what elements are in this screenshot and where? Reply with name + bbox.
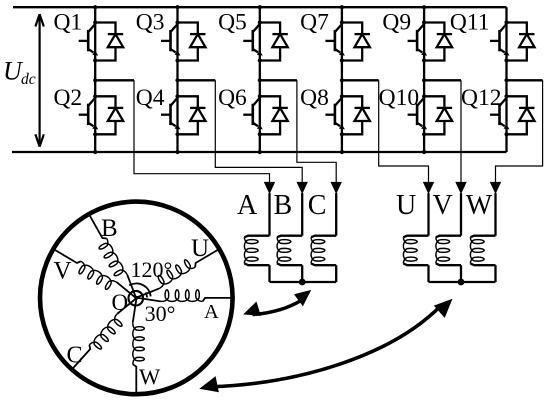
IGBT Q8 with freewheel diode [325, 96, 370, 134]
junction midpoint leg 2 [175, 78, 179, 82]
svg-text:B: B [274, 190, 293, 221]
svg-text:Q12: Q12 [461, 85, 501, 111]
phase input arrow U [423, 182, 434, 194]
svg-text:B: B [101, 215, 118, 242]
winding coil W [470, 236, 495, 238]
svg-text:Q3: Q3 [136, 10, 165, 36]
wire W to star [494, 265, 496, 282]
junction leg 3 to DC+ rail [258, 5, 262, 9]
svg-text:A: A [204, 301, 219, 323]
junction leg 2 to DC- rail [175, 150, 179, 154]
svg-text:Q11: Q11 [450, 10, 490, 36]
svg-text:120°: 120° [131, 257, 173, 282]
wire phase tap leg 6 [507, 79, 543, 81]
wire U to star [427, 265, 429, 282]
winding spoke A [138, 290, 233, 302]
IGBT Q5 with freewheel diode [243, 23, 287, 61]
junction leg 2 to DC+ rail [175, 5, 179, 9]
IGBT Q1 with freewheel diode [79, 23, 124, 61]
wire phase W [494, 193, 496, 236]
IGBT Q4 with freewheel diode [161, 96, 206, 134]
winding coil A [244, 236, 269, 238]
center ring O [129, 291, 144, 306]
wire star bus ABC [270, 281, 337, 283]
junction leg 1 to DC+ rail [93, 5, 97, 9]
svg-text:W: W [139, 364, 161, 389]
wire B to star [301, 265, 303, 282]
wire phase V [460, 193, 462, 236]
svg-text:30°: 30° [145, 301, 176, 326]
winding spoke W [133, 299, 145, 394]
junction midpoint leg 1 [93, 78, 97, 82]
svg-text:Q7: Q7 [300, 10, 329, 36]
junction midpoint leg 3 [258, 78, 262, 82]
angle arc 120 deg [129, 283, 151, 296]
svg-text:U: U [191, 235, 209, 262]
junction leg 4 to DC+ rail [340, 5, 344, 9]
phase input arrow W [490, 182, 501, 194]
svg-text:Q9: Q9 [382, 10, 411, 36]
svg-text:Q10: Q10 [379, 85, 419, 111]
svg-text:Q2: Q2 [53, 85, 82, 111]
IGBT Q11 with freewheel diode [490, 23, 535, 61]
svg-text:O: O [112, 290, 129, 315]
winding coil B [277, 236, 302, 238]
wire feed A [134, 80, 270, 184]
svg-text:W: W [466, 190, 493, 221]
wire feed B [215, 80, 302, 184]
IGBT Q2 with freewheel diode [79, 96, 124, 134]
junction midpoint leg 4 [340, 78, 344, 82]
wire phase U [427, 193, 429, 236]
wire C to star [335, 265, 337, 282]
IGBT Q12 with freewheel diode [490, 96, 535, 134]
IGBT Q3 with freewheel diode [161, 23, 206, 61]
wire phase tap leg 4 [342, 79, 379, 81]
junction midpoint leg 6 [504, 78, 508, 82]
junction leg 4 to DC- rail [340, 150, 344, 154]
svg-text:dc: dc [21, 71, 36, 88]
svg-text:Q6: Q6 [218, 85, 247, 111]
junction midpoint leg 5 [422, 78, 426, 82]
junction leg 1 to DC- rail [93, 150, 97, 154]
angle arc 30 deg [146, 292, 148, 297]
star point n1 [299, 279, 306, 286]
phase input arrow C [331, 182, 342, 194]
wire DC+ top rail [13, 6, 507, 8]
svg-text:C: C [308, 190, 327, 221]
svg-text:V: V [54, 258, 72, 285]
wire inverter leg 6 [505, 7, 507, 152]
svg-text:Q1: Q1 [53, 10, 82, 36]
winding spoke U [134, 242, 222, 300]
wire phase tap leg 2 [178, 79, 216, 81]
wire phase B [301, 193, 303, 236]
wire feed U [379, 80, 429, 184]
IGBT Q10 with freewheel diode [408, 96, 453, 134]
phasor circle [40, 202, 233, 395]
wire feed C [297, 80, 336, 184]
winding spoke B [82, 212, 139, 300]
svg-text:U: U [396, 190, 416, 221]
wire feed V [460, 80, 462, 184]
phase input arrow A [264, 182, 275, 194]
svg-text:Q8: Q8 [300, 85, 329, 111]
svg-text:V: V [433, 190, 453, 221]
Udc bus voltage double arrow [35, 14, 43, 146]
wire phase A [268, 193, 270, 236]
wire inverter leg 2 [176, 7, 178, 152]
winding coil U [403, 236, 428, 238]
IGBT Q7 with freewheel diode [325, 23, 370, 61]
IGBT Q9 with freewheel diode [408, 23, 453, 61]
junction leg 3 to DC- rail [258, 150, 262, 154]
wire star bus UVW [429, 281, 496, 283]
phase input arrow B [297, 182, 308, 194]
wire phase tap leg 1 [95, 79, 134, 81]
double arrow circle to ABC star [241, 284, 316, 322]
svg-text:C: C [67, 343, 83, 369]
double arrow circle to UVW star [197, 293, 458, 397]
IGBT Q6 with freewheel diode [243, 96, 287, 134]
wire phase C [335, 193, 337, 236]
phase input arrow V [455, 182, 466, 194]
winding spoke C [69, 297, 141, 375]
winding coil V [436, 236, 461, 238]
junction leg 5 to DC- rail [422, 150, 426, 154]
star point n2 [458, 279, 465, 286]
wire V to star [460, 265, 462, 282]
wire inverter leg 5 [423, 7, 425, 152]
winding coil C [311, 236, 336, 238]
wire DC- bottom rail [12, 151, 507, 153]
wire A to star [268, 265, 270, 282]
svg-text:A: A [237, 190, 258, 221]
winding spoke V [49, 246, 137, 304]
junction leg 5 to DC+ rail [422, 5, 426, 9]
wire inverter leg 1 [94, 7, 96, 152]
wire phase tap leg 5 [424, 79, 461, 81]
svg-text:Q5: Q5 [218, 10, 247, 36]
wire phase tap leg 3 [260, 79, 297, 81]
svg-text:Q4: Q4 [136, 85, 165, 111]
wire inverter leg 3 [259, 7, 261, 152]
wire inverter leg 4 [341, 7, 343, 152]
wire feed W [496, 80, 543, 184]
